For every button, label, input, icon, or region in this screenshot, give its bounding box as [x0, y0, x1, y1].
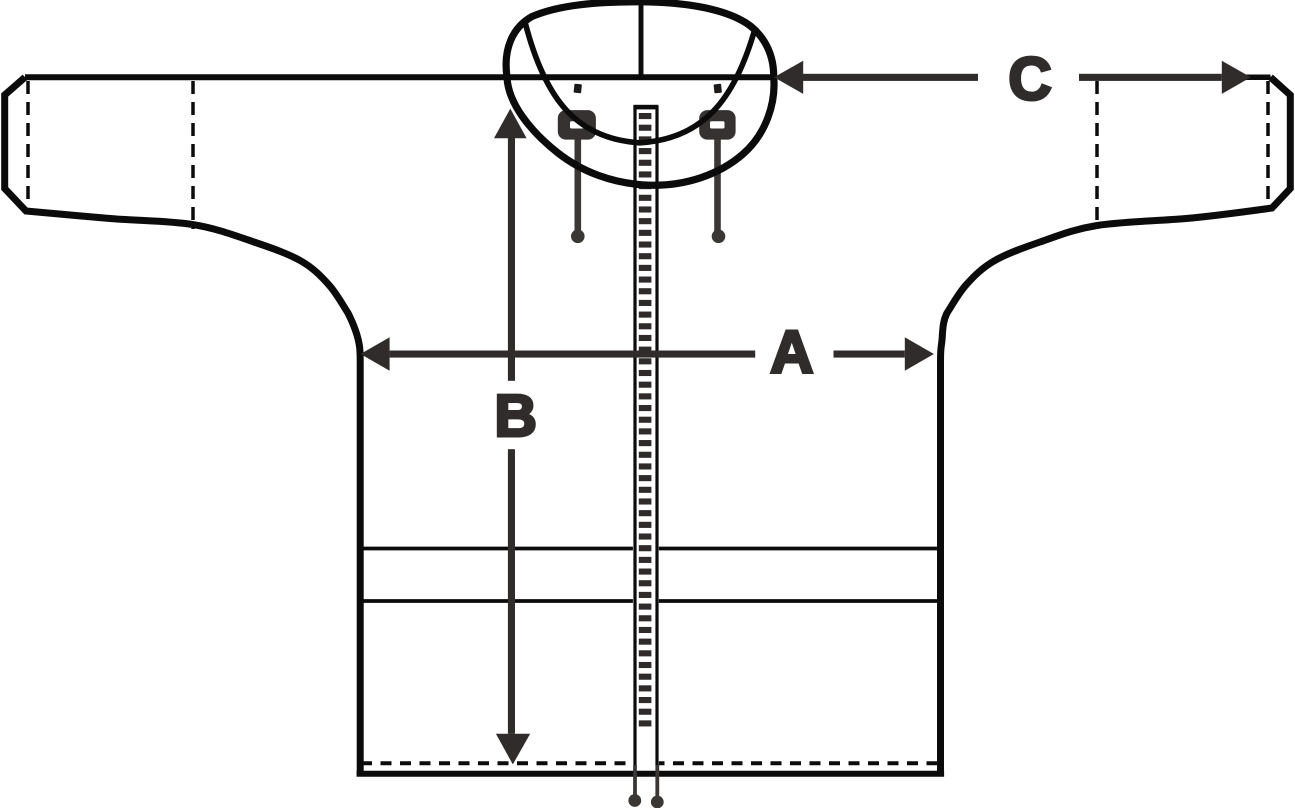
wire left sleeve and body outline	[5, 77, 361, 774]
svg-text:B: B	[494, 383, 537, 449]
arrow B	[494, 109, 537, 765]
wire left cuff dashed line 1	[26, 81, 30, 207]
node right cord stopper	[699, 110, 735, 140]
wire zipper bottom cords	[633, 765, 637, 799]
hood center seam	[639, 4, 644, 77]
node right cord stub	[714, 84, 722, 94]
arrow A	[361, 318, 934, 385]
hood outer outline	[506, 2, 774, 185]
node left cord stopper	[558, 110, 596, 140]
wire right cuff dashed line 2	[1095, 81, 1099, 229]
wire right drawcord	[714, 139, 721, 234]
wire bottom hem solid	[357, 771, 945, 777]
wire pocket line upper	[360, 547, 941, 551]
hood face opening curve	[525, 22, 756, 143]
svg-text:C: C	[1008, 46, 1051, 113]
arrow C	[774, 46, 1251, 113]
svg-text:A: A	[770, 318, 813, 385]
wire left cuff dashed line 2	[191, 81, 195, 229]
wire right cuff dashed line 1	[1266, 81, 1270, 207]
wire bottom hem dashed	[361, 761, 940, 765]
wire shoulder and collar line	[25, 74, 773, 80]
wire pocket line lower	[360, 599, 941, 603]
zipper	[633, 104, 659, 766]
node left cord stub	[574, 84, 582, 94]
wire left drawcord	[574, 139, 581, 234]
wire right sleeve and body outline	[941, 77, 1291, 774]
